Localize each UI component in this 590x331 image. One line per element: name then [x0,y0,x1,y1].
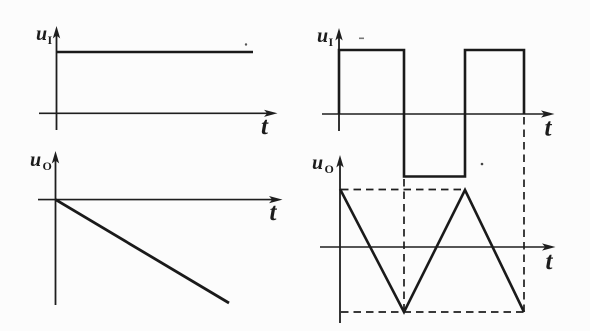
label u_O (right-bottom) [312,152,334,176]
axis: left-bottom horizontal t axis [38,196,283,203]
svg-text:t: t [546,248,554,275]
svg-text:O: O [325,162,334,176]
label u_I (right-top) [317,25,334,49]
axis: left-bottom u_O vertical axis [52,151,59,305]
speck near right apex [481,163,484,166]
svg-text:O: O [43,159,52,173]
dashed guide: bottom peak level (right-bottom) [341,311,524,313]
speck near step line [245,43,247,45]
dashed guide: top peak level (right-bottom) [341,189,465,191]
axis: right-bottom horizontal t axis [320,243,556,250]
svg-text:u: u [30,149,41,171]
waveform: triangle wave output (right-bottom) [340,189,524,312]
dashed guide: vertical at first minimum t1 [403,179,405,312]
speck right-top [359,38,364,40]
svg-text:I: I [329,35,334,49]
label u_O (left-bottom) [30,149,52,173]
axis: right-bottom u_O vertical axis [336,155,343,323]
svg-text:t: t [545,115,553,142]
axis: right-top horizontal t axis [322,110,555,117]
svg-text:u: u [36,23,47,45]
label u_I (left-top) [36,23,53,47]
svg-text:t: t [261,113,269,140]
waveform: step input level (left-top) [57,51,254,54]
axis: left-top horizontal t axis [39,110,278,117]
dashed guide: vertical at end time t3 [523,117,525,312]
svg-text:u: u [317,25,328,47]
axis: left-top u_I vertical axis [53,26,60,130]
waveform: output ramp (left-bottom) [56,200,230,303]
svg-text:t: t [270,199,278,226]
axis: right-top u_I vertical axis [335,28,342,131]
svg-text:I: I [48,33,53,47]
waveform: square wave input (right-top) [339,50,524,177]
svg-text:u: u [312,152,323,174]
